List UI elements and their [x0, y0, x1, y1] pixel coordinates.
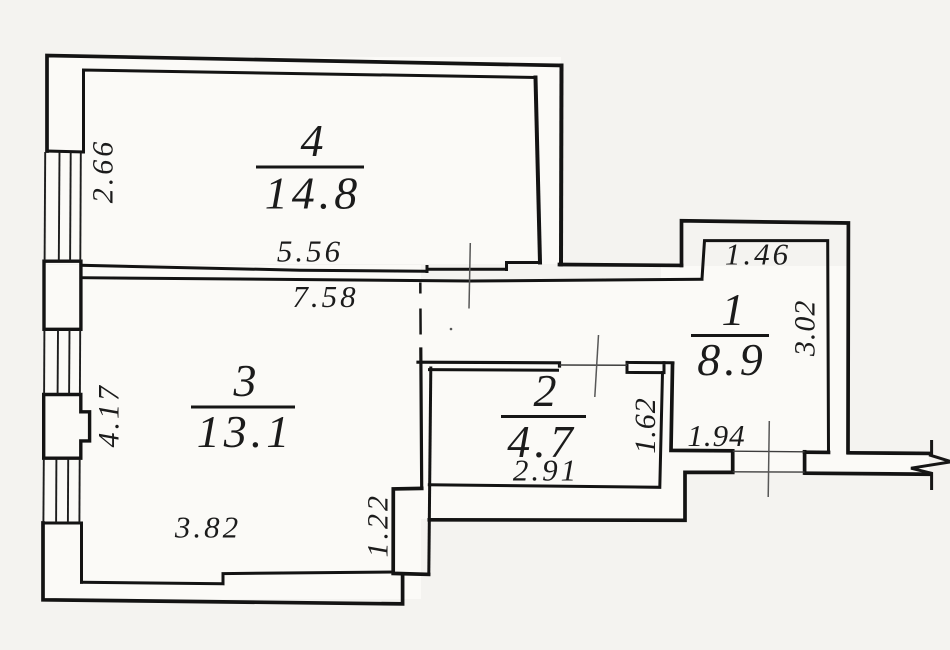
wall: bottom outer with step — [43, 523, 403, 604]
wall: corner block 1 closing line — [47, 151, 84, 152]
window 1 hatch lines — [45, 152, 81, 261]
svg-text:4.17: 4.17 — [92, 383, 125, 448]
svg-text:2.91: 2.91 — [513, 453, 579, 488]
svg-text:5.56: 5.56 — [277, 234, 343, 269]
svg-text:4: 4 — [301, 115, 324, 166]
wall: door 1.94 right jamb — [803, 452, 807, 473]
window 2 hatch lines — [44, 330, 80, 394]
window 3 hatch lines — [43, 459, 79, 523]
svg-text:1.94: 1.94 — [687, 418, 745, 453]
svg-text:1.22: 1.22 — [362, 493, 395, 558]
wall: lower step below door 1.94 — [429, 472, 732, 520]
axis line at door 1.94 — [768, 421, 769, 497]
pier 3 with notch — [44, 395, 90, 459]
room 1 fraction line — [691, 334, 769, 337]
wall: room 2 left outer — [419, 349, 423, 488]
door 1.94 thin opening lines — [733, 451, 805, 472]
wall: room 1 outer (left, top, right) — [682, 221, 849, 453]
wall: jamb to right wall — [805, 450, 829, 454]
svg-text:2: 2 — [534, 365, 557, 416]
wall: room 3 inner bottom with step — [82, 572, 394, 584]
svg-text:13.1: 13.1 — [197, 406, 294, 457]
wall: divider 7.58 top line with jogs — [81, 263, 540, 272]
dashed opening line (corridor to room 3) — [419, 283, 422, 351]
pier 2 (between window 1 and 2) — [44, 261, 81, 329]
svg-text:1: 1 — [722, 284, 745, 335]
wall: room 2 right inner + bottom inner — [429, 373, 662, 488]
wall: door piece top — [627, 362, 673, 372]
wall: room 4 right inner — [536, 78, 541, 263]
axis line at divider wall — [469, 243, 470, 309]
svg-text:3: 3 — [233, 355, 257, 406]
wall: room 2 left inner — [429, 368, 431, 574]
wall: left step to bottom — [393, 488, 428, 574]
svg-text:1.62: 1.62 — [629, 397, 662, 454]
door room2 thin opening line — [560, 364, 628, 366]
svg-text:3.02: 3.02 — [789, 300, 822, 358]
wall: room 4 outer top + left corner block — [47, 56, 562, 152]
wall: room 2 top inner — [430, 368, 558, 372]
room 3 fraction line — [191, 406, 295, 409]
wall: room 2 top outer — [418, 362, 560, 366]
room 2 fraction line — [501, 415, 586, 418]
wall: divider top right part — [560, 263, 682, 268]
room interior brightening — [44, 57, 929, 599]
wall: block 4 closing + inner — [43, 523, 82, 582]
wall: top line toward break — [849, 451, 930, 455]
wall: bottom line toward break — [806, 473, 930, 474]
break symbol (wall continues) — [911, 440, 950, 490]
svg-text:1.46: 1.46 — [725, 237, 791, 272]
wall: room 1 bottom left segment + door left jamb — [671, 365, 733, 471]
svg-text:8.9: 8.9 — [697, 334, 767, 385]
wall: room 4 right outer — [559, 66, 564, 265]
wall: room 1 inner (left, top, right) — [702, 241, 829, 453]
axis line at room 2 door — [595, 335, 599, 397]
svg-text:14.8: 14.8 — [265, 168, 362, 219]
svg-text:7.58: 7.58 — [292, 279, 358, 314]
wall: divider 7.58 bottom line — [81, 278, 702, 281]
room 4 fraction line — [256, 166, 364, 169]
svg-text:2.66: 2.66 — [86, 139, 119, 204]
wall: room 4 inner top — [84, 70, 536, 152]
scan speck — [450, 328, 453, 331]
svg-text:3.82: 3.82 — [174, 510, 241, 545]
